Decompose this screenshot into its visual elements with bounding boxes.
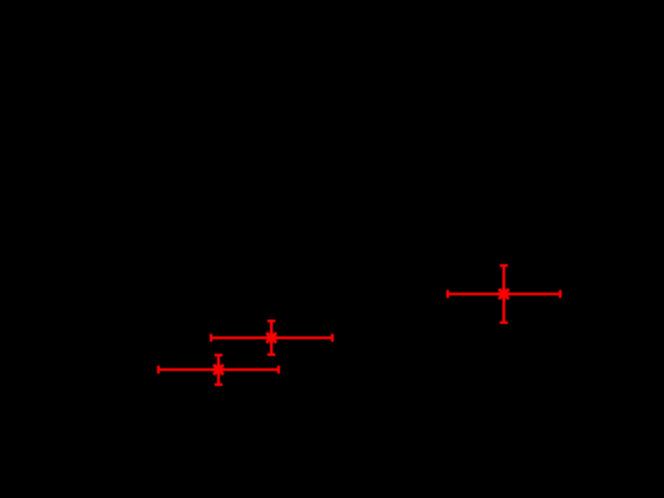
P2 horizontal error bar bbox=[211, 336, 332, 339]
P1 left cap bbox=[157, 366, 160, 374]
data point P3 bbox=[448, 266, 561, 323]
P3 top cap bbox=[500, 264, 508, 267]
data point P1 bbox=[158, 355, 278, 385]
P2 top cap bbox=[267, 320, 275, 323]
P1 bottom cap bbox=[215, 383, 223, 386]
P3 star marker bbox=[498, 288, 510, 300]
P1 vertical error bar bbox=[217, 355, 220, 385]
P1 top cap bbox=[215, 354, 223, 357]
P2 vertical error bar bbox=[270, 321, 273, 355]
P3 bottom cap bbox=[500, 321, 508, 324]
P3 horizontal error bar bbox=[448, 293, 561, 296]
P2 bottom cap bbox=[267, 353, 275, 356]
P2 left cap bbox=[210, 334, 213, 342]
P2 right cap bbox=[331, 334, 334, 342]
P3 right cap bbox=[559, 290, 562, 298]
P1 right cap bbox=[277, 366, 280, 374]
P1 star marker bbox=[213, 364, 225, 376]
data point P2 bbox=[211, 321, 332, 355]
P2 star marker bbox=[265, 332, 277, 344]
P3 vertical error bar bbox=[502, 266, 505, 323]
P3 left cap bbox=[446, 290, 449, 298]
P1 horizontal error bar bbox=[158, 368, 278, 371]
